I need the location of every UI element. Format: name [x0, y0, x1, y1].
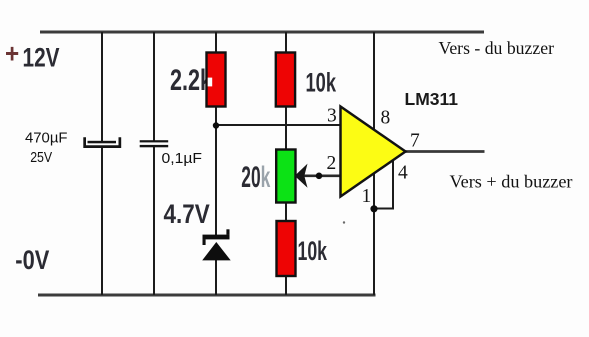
svg-text:470µF: 470µF — [25, 130, 68, 146]
svg-text:25V: 25V — [30, 150, 52, 166]
svg-text:Vers - du buzzer: Vers - du buzzer — [439, 38, 555, 58]
svg-text:LM311: LM311 — [405, 89, 459, 109]
svg-text:1: 1 — [362, 186, 372, 207]
svg-text:10k: 10k — [306, 68, 337, 98]
svg-text:8: 8 — [381, 108, 391, 129]
svg-text:12V: 12V — [23, 42, 60, 72]
svg-text:3: 3 — [327, 106, 337, 127]
svg-text:-0V: -0V — [15, 245, 49, 275]
svg-text:0,1µF: 0,1µF — [162, 151, 203, 167]
svg-text:4.7V: 4.7V — [164, 199, 210, 229]
svg-text:Vers + du buzzer: Vers + du buzzer — [450, 172, 573, 192]
svg-text:7: 7 — [410, 131, 420, 152]
svg-text:4: 4 — [398, 163, 408, 184]
svg-text:+: + — [5, 39, 19, 69]
svg-text:2: 2 — [327, 153, 337, 174]
svg-text:20k: 20k — [241, 161, 270, 194]
svg-text:10k: 10k — [298, 236, 328, 266]
